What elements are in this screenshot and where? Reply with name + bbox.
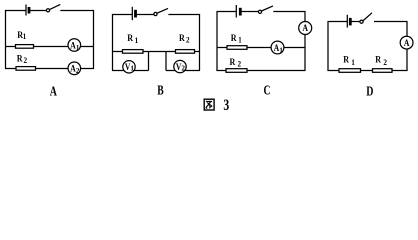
- label R1 (circuit B): [127, 33, 138, 46]
- wire: circuit B V1 left lead: [112, 70, 124, 72]
- wire: circuit A top segment mid: [30, 10, 46, 12]
- label R2 (circuit D): [375, 54, 387, 67]
- svg-text:1: 1: [23, 31, 27, 41]
- svg-text:1: 1: [351, 57, 355, 67]
- svg-text:2: 2: [24, 56, 28, 66]
- svg-text:R: R: [375, 54, 381, 65]
- wire: circuit C top segment left: [217, 11, 237, 13]
- switch S (circuit D): [360, 13, 372, 24]
- label A1 inside ammeter (circuit A): [70, 40, 80, 52]
- wire: circuit B V2 right lead: [185, 70, 200, 72]
- label R2 (circuit C): [230, 56, 242, 69]
- svg-text:2: 2: [238, 59, 242, 69]
- label R1 (circuit A): [17, 30, 26, 41]
- label D (answer choice D): [366, 83, 373, 99]
- svg-text:R: R: [343, 54, 349, 65]
- svg-text:A: A: [50, 83, 57, 99]
- caption: Chinese character TU (figure): [204, 99, 214, 110]
- svg-text:1: 1: [279, 46, 283, 54]
- wire: circuit D bottom left: [328, 70, 340, 72]
- label R2 (circuit B): [179, 32, 190, 44]
- wire: circuit B mid line right: [195, 51, 201, 53]
- wire: circuit A branch1 mid: [34, 46, 69, 48]
- switch S (circuit B): [154, 8, 168, 15]
- svg-text:B: B: [157, 83, 164, 98]
- wire: circuit C branch1 mid: [247, 47, 271, 49]
- label B (answer choice B): [157, 83, 164, 98]
- svg-text:R: R: [127, 33, 133, 44]
- wire: circuit C branch1 right: [284, 47, 305, 49]
- label A (answer choice A): [50, 83, 57, 99]
- wire: circuit B mid line center: [143, 51, 176, 53]
- resistor R2 (circuit A): [16, 67, 36, 71]
- resistor R1 (circuit A): [16, 45, 34, 49]
- voltmeter V1 (circuit B): [123, 61, 135, 73]
- wire: circuit A top segment left: [5, 10, 26, 12]
- wire: circuit D top segment mid: [351, 21, 360, 23]
- resistor R2 (circuit D): [373, 69, 393, 73]
- label C (answer choice C): [263, 82, 270, 98]
- caption: figure number 3: [223, 96, 229, 114]
- label V1 inside voltmeter (circuit B): [125, 61, 135, 72]
- battery (circuit D): [347, 15, 350, 28]
- resistor R1 (circuit B): [123, 50, 144, 54]
- svg-text:A: A: [404, 37, 410, 48]
- svg-text:R: R: [231, 32, 237, 43]
- svg-text:R: R: [179, 32, 185, 43]
- ammeter A (circuit C): [299, 22, 312, 35]
- wire: circuit D top segment right: [374, 21, 408, 23]
- wire: circuit B top segment mid: [137, 14, 154, 16]
- svg-text:R: R: [230, 56, 236, 67]
- ammeter A (circuit D): [400, 36, 413, 49]
- wire: circuit A top segment right: [60, 10, 94, 12]
- svg-text:1: 1: [130, 65, 134, 73]
- wire: circuit C branch1 left: [217, 47, 228, 49]
- wire: circuit A bottom left: [5, 68, 16, 70]
- label A inside main ammeter (circuit C): [302, 22, 308, 33]
- voltmeter V2 (circuit B): [174, 60, 186, 72]
- ammeter A1 (circuit C): [271, 41, 284, 54]
- wire: circuit C top segment mid: [241, 11, 258, 13]
- wire: circuit D bottom mid: [361, 70, 373, 72]
- ammeter A2 (circuit A): [68, 62, 81, 75]
- svg-text:C: C: [263, 82, 270, 98]
- label R2 (circuit A): [17, 53, 27, 65]
- wire: circuit D right vertical upper: [406, 22, 408, 37]
- ammeter A1 (circuit A): [68, 39, 81, 52]
- svg-text:1: 1: [135, 35, 139, 45]
- wire: circuit B stub V2 left: [165, 52, 167, 71]
- resistor R2 (circuit C): [226, 69, 247, 73]
- wire: circuit D bottom right: [392, 70, 408, 72]
- wire: circuit A branch1 left: [5, 46, 16, 48]
- wire: circuit A right vertical: [93, 10, 95, 69]
- wire: circuit B top segment right: [168, 14, 200, 16]
- svg-text:2: 2: [181, 64, 185, 72]
- label R1 (circuit C): [231, 32, 242, 45]
- wire: circuit C left vertical: [216, 12, 218, 72]
- svg-text:A: A: [302, 22, 308, 33]
- wire: circuit B top segment left: [112, 14, 132, 16]
- switch S (circuit C): [258, 6, 273, 13]
- wire: circuit A left vertical: [5, 10, 7, 69]
- wire: circuit A bottom right: [80, 68, 94, 70]
- svg-text:3: 3: [223, 96, 229, 114]
- wire: circuit C bottom left: [217, 70, 227, 72]
- wire: circuit C right vertical upper: [304, 12, 306, 22]
- wire: circuit A bottom mid: [36, 68, 69, 70]
- svg-text:2: 2: [186, 35, 190, 45]
- wire: circuit D left vertical: [327, 22, 329, 72]
- svg-text:1: 1: [238, 35, 242, 45]
- battery (circuit B): [132, 7, 135, 20]
- svg-text:1: 1: [76, 44, 80, 52]
- battery (circuit A): [26, 5, 29, 16]
- wire: circuit D top segment left: [328, 21, 348, 23]
- wire: circuit B right vertical: [199, 14, 201, 71]
- resistor R1 (circuit D): [339, 69, 361, 73]
- resistor R2 (circuit B): [176, 50, 195, 54]
- resistor R1 (circuit C): [227, 46, 247, 50]
- wire: circuit C right vertical lower: [304, 34, 306, 71]
- wire: circuit D right vertical lower: [406, 49, 408, 71]
- label V2 inside voltmeter (circuit B): [176, 61, 186, 72]
- switch S (circuit A): [46, 4, 60, 11]
- label A2 inside ammeter (circuit A): [70, 63, 80, 75]
- svg-text:2: 2: [383, 57, 387, 67]
- svg-text:D: D: [366, 83, 373, 99]
- wire: circuit A branch1 right: [80, 46, 93, 48]
- wire: circuit B mid line left: [112, 51, 123, 53]
- wire: circuit C bottom right: [247, 70, 306, 72]
- wire: circuit B V1 right lead: [134, 70, 149, 72]
- wire: circuit B V2 left lead: [166, 70, 175, 72]
- label A1 inside ammeter (circuit C): [274, 42, 284, 54]
- label A inside ammeter (circuit D): [404, 37, 410, 48]
- wire: circuit B stub V1 right: [148, 52, 150, 71]
- wire: circuit C top segment right: [273, 11, 305, 13]
- svg-text:R: R: [17, 53, 23, 64]
- svg-text:2: 2: [76, 67, 80, 75]
- wire: circuit B left vertical: [112, 14, 114, 71]
- battery (circuit C): [236, 5, 240, 18]
- label R1 (circuit D): [343, 54, 355, 67]
